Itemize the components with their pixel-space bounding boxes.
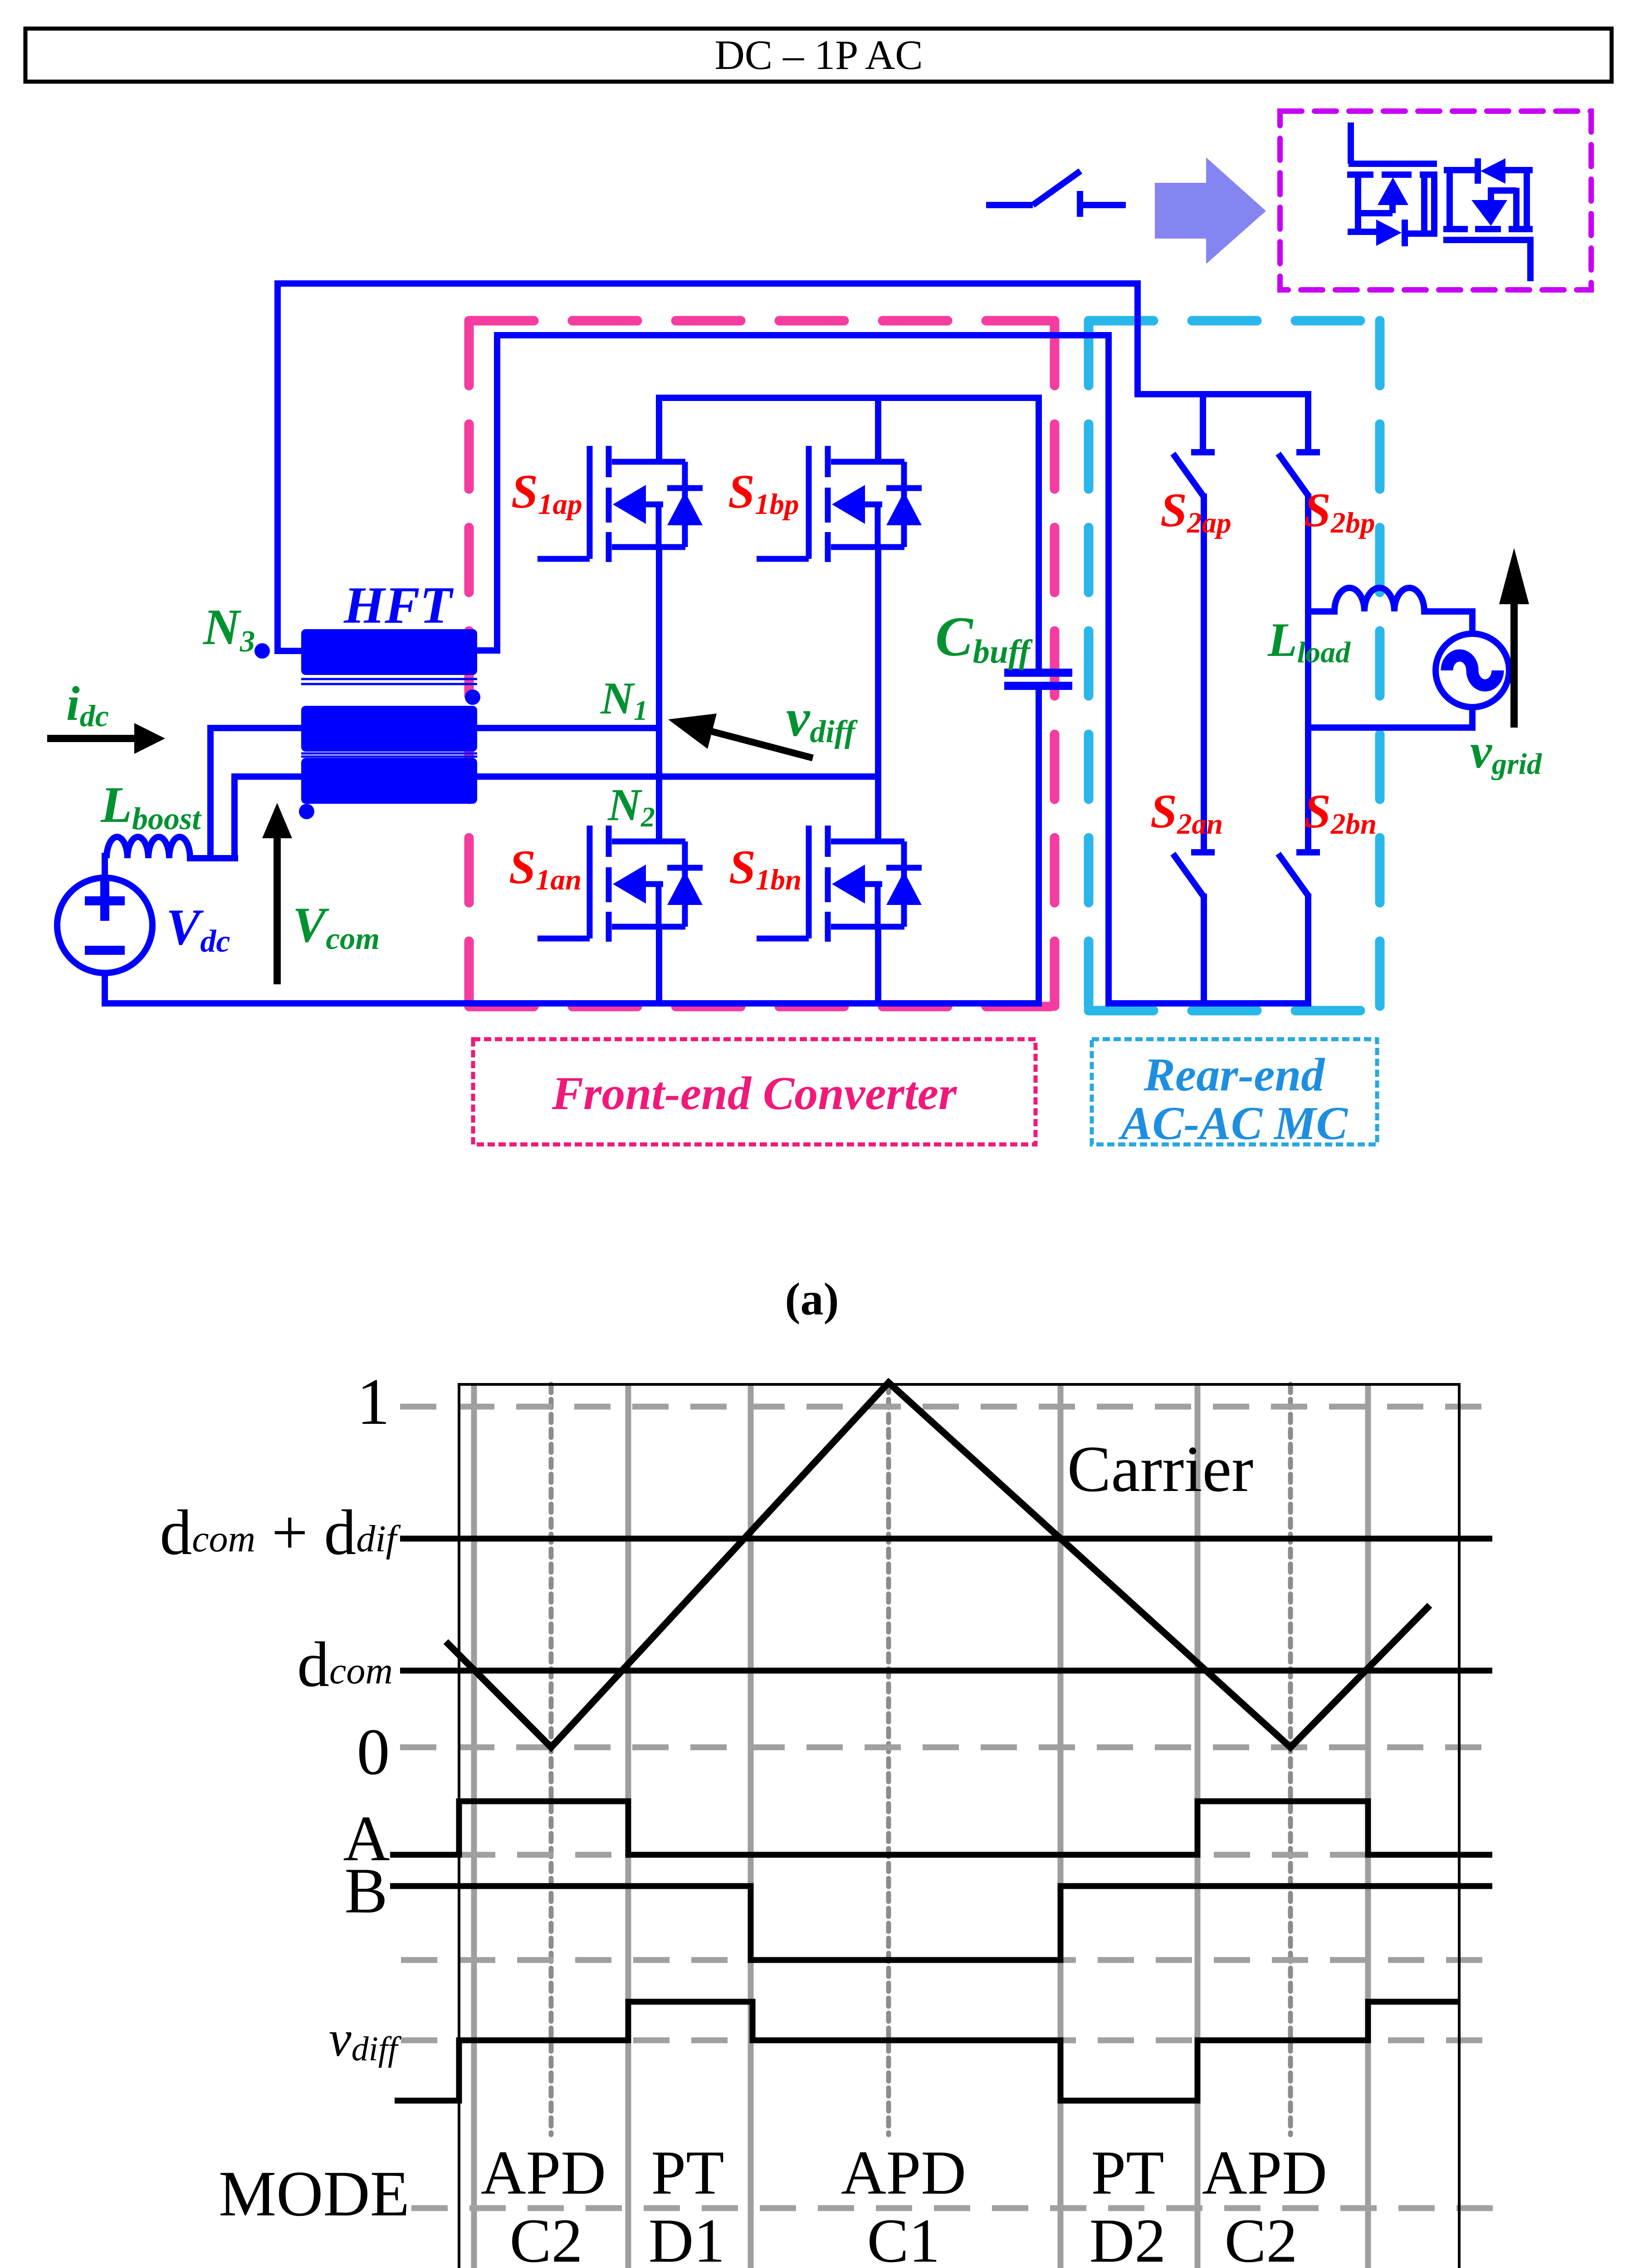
ac source v_grid	[1436, 608, 1509, 731]
dashed level line MODE	[411, 2205, 1498, 2211]
inductor L_boost	[107, 837, 238, 858]
svg-text:APD: APD	[841, 2138, 966, 2207]
dashed level line 0	[400, 1745, 1488, 1750]
transformer dot bottom winding	[299, 804, 314, 819]
svg-text:Cbuff: Cbuff	[935, 606, 1033, 670]
svg-text:D1: D1	[649, 2206, 725, 2268]
switch S2an	[1173, 852, 1215, 1007]
svg-text:D2: D2	[1090, 2206, 1166, 2268]
level line dcom+ddif	[400, 1536, 1492, 1542]
wire a-leg N1 to S1an	[656, 725, 662, 841]
wire outer bus down to rear-end top bus	[1138, 280, 1308, 394]
chart frame	[459, 1384, 1459, 2268]
transformer core lines	[301, 679, 477, 757]
arrow v_grid	[1499, 548, 1529, 728]
MOSFET S1bn	[757, 826, 922, 1007]
wire L_boost node to bottom winding	[231, 777, 303, 861]
svg-text:S2an: S2an	[1150, 785, 1223, 841]
MOSFET MR of bidirectional switch	[1443, 158, 1533, 281]
svg-text:N1: N1	[600, 673, 648, 726]
waveform B	[390, 1886, 1492, 1960]
svg-text:PT: PT	[651, 2138, 724, 2207]
MOSFET S1ap	[538, 395, 703, 731]
svg-text:Vdc: Vdc	[166, 899, 230, 959]
wire rear-end bottom bus	[1105, 1000, 1308, 1007]
bidirectional switch box (magenta dashed)	[1280, 111, 1591, 290]
svg-text:dcom + ddif: dcom + ddif	[160, 1496, 401, 1568]
svg-text:Front-end Converter: Front-end Converter	[552, 1067, 958, 1119]
carrier waveform	[446, 1383, 1430, 1747]
svg-text:idc: idc	[66, 677, 109, 733]
svg-text:Carrier: Carrier	[1067, 1433, 1254, 1505]
svg-text:dcom: dcom	[297, 1628, 393, 1700]
wire middle winding to node N1	[477, 725, 659, 731]
wire grid return	[1308, 724, 1472, 731]
dashed level line vdiff	[401, 2038, 1488, 2043]
dashed level line B	[401, 1957, 1488, 1963]
svg-text:S2bp: S2bp	[1304, 484, 1375, 539]
rear-end boundary box (cyan dashed)	[1089, 321, 1380, 1011]
wire bottom winding to node N2	[477, 773, 878, 780]
arrow (switch implementation)	[1155, 157, 1266, 264]
svg-text:1: 1	[357, 1365, 390, 1438]
wire b-leg N2 to S1bn	[875, 773, 881, 841]
front-end converter label box	[473, 1039, 1036, 1144]
svg-text:Vcom: Vcom	[293, 897, 380, 956]
wire top winding right to front-end top rail	[477, 332, 1109, 1003]
svg-text:HFT: HFT	[343, 577, 454, 635]
svg-text:PT: PT	[1091, 2138, 1164, 2207]
waveform vdiff	[395, 2002, 1459, 2101]
svg-text:N3: N3	[202, 599, 255, 658]
svg-text:Lboost: Lboost	[100, 777, 202, 836]
svg-text:S1bn: S1bn	[729, 841, 801, 896]
mode row labels	[481, 2138, 1327, 2268]
svg-text:vdiff: vdiff	[329, 2011, 401, 2068]
svg-text:B: B	[344, 1855, 387, 1926]
dashed level line 1	[400, 1404, 1488, 1410]
svg-text:AC-AC MC: AC-AC MC	[1118, 1097, 1349, 1149]
MOSFET S1bp	[757, 395, 922, 777]
capacitor C_buff	[1004, 395, 1072, 1007]
svg-text:MODE: MODE	[219, 2158, 410, 2229]
svg-text:S2bn: S2bn	[1304, 785, 1377, 841]
svg-text:S2ap: S2ap	[1160, 484, 1231, 539]
svg-text:C1: C1	[867, 2206, 940, 2268]
inductor L_load	[1308, 588, 1472, 611]
MOSFET ML of bidirectional switch	[1347, 122, 1437, 246]
grid solid vertical lines	[474, 1384, 1368, 2268]
svg-text:C2: C2	[1224, 2206, 1297, 2268]
svg-text:(a): (a)	[785, 1274, 839, 1325]
level line dcom	[400, 1668, 1492, 1674]
svg-text:Rear-end: Rear-end	[1143, 1049, 1326, 1101]
svg-text:S1an: S1an	[509, 841, 582, 896]
front-end drain bus	[659, 395, 1039, 401]
switch symbol (ideal switch)	[986, 171, 1126, 217]
arrow V_com	[262, 803, 292, 984]
svg-text:APD: APD	[1202, 2138, 1327, 2207]
svg-text:vdiff: vdiff	[786, 688, 858, 749]
rear-end AC-AC MC label box	[1092, 1039, 1377, 1149]
svg-text:S1bp: S1bp	[728, 465, 799, 521]
wire dc bottom bus	[102, 1000, 1039, 1007]
switch S2ap	[1173, 391, 1215, 852]
svg-text:N2: N2	[607, 779, 655, 833]
switch S2bn	[1278, 852, 1320, 1007]
waveform A	[390, 1801, 1492, 1855]
svg-text:0: 0	[357, 1715, 390, 1789]
current arrow i_dc	[47, 723, 165, 754]
dashed level line A	[401, 1852, 1488, 1858]
wire top winding left connect	[274, 648, 303, 654]
transformer dot middle winding	[465, 689, 480, 705]
svg-text:APD: APD	[481, 2138, 606, 2207]
title box DC-1P AC	[25, 29, 1612, 82]
svg-text:C2: C2	[509, 2206, 582, 2268]
wire from N3 winding to outer top bus	[278, 283, 1138, 654]
svg-text:vgrid: vgrid	[1470, 724, 1542, 781]
svg-text:DC – 1P AC: DC – 1P AC	[714, 32, 923, 78]
arrow v_diff	[668, 714, 813, 758]
switch S2bp	[1278, 391, 1320, 852]
grid dotted vertical lines	[551, 1384, 1290, 2135]
node N3 dot	[254, 643, 270, 659]
transformer HFT windings	[301, 629, 477, 804]
dc source Vdc	[57, 853, 152, 1007]
MOSFET S1an	[538, 826, 703, 1007]
svg-text:S1ap: S1ap	[511, 465, 582, 521]
wire L_boost node to middle winding	[207, 728, 303, 861]
front-end converter boundary box (pink dashed)	[469, 321, 1055, 1007]
